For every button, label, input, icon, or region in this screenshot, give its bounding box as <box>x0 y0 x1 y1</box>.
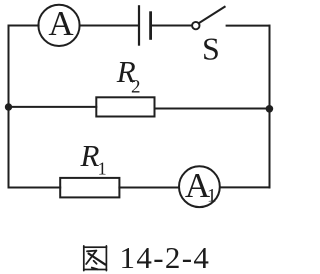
switch S lever <box>199 7 225 23</box>
switch S pivot <box>192 22 199 29</box>
wire switch to top right corner <box>227 25 270 27</box>
wire A1 to bottom right corner <box>220 186 269 188</box>
wire battery to switch <box>152 25 192 27</box>
wire left vertical <box>8 26 10 188</box>
caption character 图 (drawn) <box>84 246 107 271</box>
svg-text:A: A <box>48 4 74 43</box>
svg-text:2: 2 <box>131 77 141 98</box>
wire bottom rail left <box>9 187 61 189</box>
svg-text:14-2-4: 14-2-4 <box>120 240 211 274</box>
battery long plate <box>138 6 140 44</box>
ammeter A1 <box>179 166 220 207</box>
battery short plate <box>149 13 152 39</box>
wire right vertical <box>269 26 271 188</box>
resistor R2 body <box>96 97 154 116</box>
wire ammeter to battery <box>80 25 139 27</box>
ammeter A <box>38 5 79 46</box>
wire middle rail left <box>9 106 97 108</box>
wire R1 to ammeter A1 <box>119 187 178 189</box>
node junction right <box>266 105 274 113</box>
wire middle rail right <box>155 108 270 110</box>
resistor R1 body <box>60 178 119 198</box>
svg-text:S: S <box>202 31 220 67</box>
svg-text:1: 1 <box>207 185 217 206</box>
svg-text:R: R <box>80 138 100 173</box>
node junction left <box>5 103 12 110</box>
svg-text:1: 1 <box>98 158 107 178</box>
wire top rail left <box>9 25 39 27</box>
